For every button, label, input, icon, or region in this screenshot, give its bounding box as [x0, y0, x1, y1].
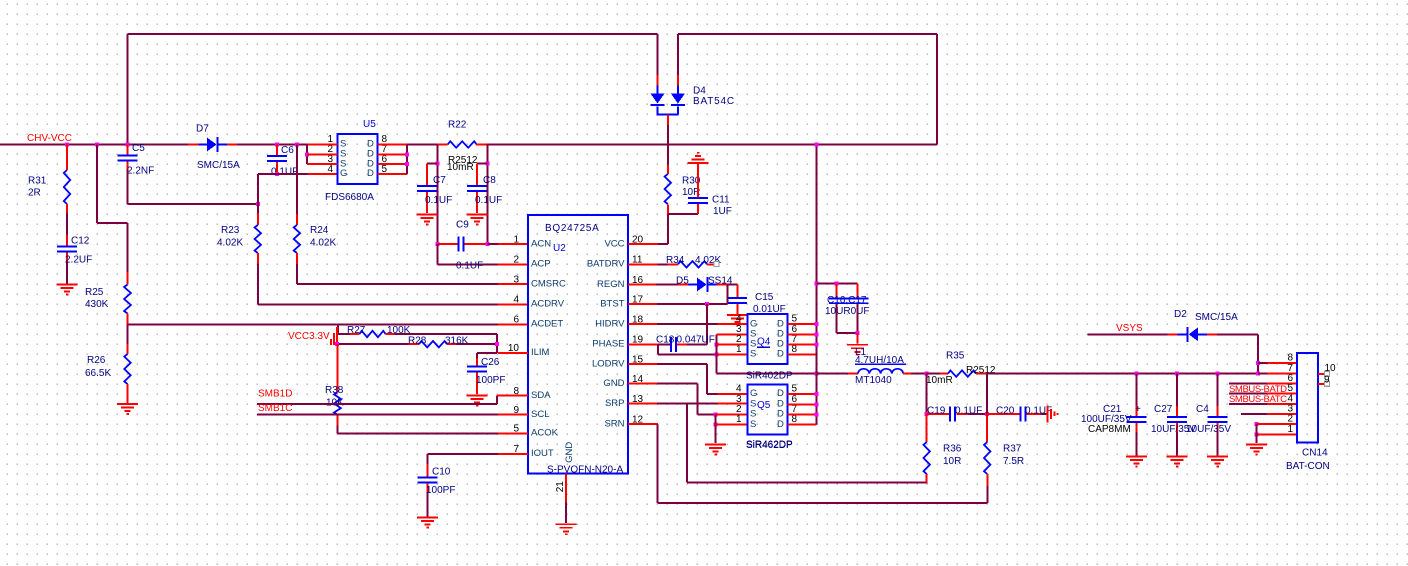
svg-text:SCL: SCL: [531, 409, 549, 420]
svg-text:BAT-CON: BAT-CON: [1286, 461, 1330, 472]
svg-text:CMSRC: CMSRC: [531, 278, 566, 289]
U2 left pin names: [531, 238, 566, 459]
capacitor C21: [1081, 372, 1146, 456]
svg-text:1: 1: [513, 234, 519, 245]
svg-text:R31: R31: [28, 175, 47, 186]
svg-text:BQ24725A: BQ24725A: [545, 223, 600, 234]
wire ACN net: [488, 243, 529, 245]
capacitor C10: [418, 464, 456, 517]
svg-text:R26: R26: [87, 355, 106, 366]
svg-text:HIDRV: HIDRV: [595, 319, 625, 330]
svg-text:D7: D7: [196, 123, 209, 134]
svg-text:1: 1: [736, 344, 742, 355]
svg-text:7.5R: 7.5R: [1003, 456, 1024, 467]
wire top-left loop: [128, 34, 658, 145]
wire CN14 pin3: [1241, 413, 1297, 415]
wire CN14 pin6: [1229, 382, 1297, 384]
svg-text:REGN: REGN: [597, 279, 625, 290]
wire PHASE to Q4 sources: [658, 334, 748, 356]
wire rail to R25: [95, 143, 128, 265]
svg-text:SRN: SRN: [604, 419, 624, 430]
svg-text:0.1UF: 0.1UF: [475, 195, 502, 206]
svg-text:C18: C18: [656, 334, 675, 345]
ground under Q5: [705, 444, 726, 456]
svg-text:ILIM: ILIM: [531, 347, 550, 358]
svg-text:0.1UF: 0.1UF: [425, 195, 452, 206]
ground under C16 C17: [847, 344, 868, 356]
capacitor C16 C17: [825, 295, 869, 317]
ground under C10: [417, 517, 438, 529]
svg-text:ACDRV: ACDRV: [531, 299, 565, 310]
svg-text:4: 4: [736, 384, 742, 395]
svg-text:ACN: ACN: [531, 238, 551, 249]
wire SMB1C / SCL net: [257, 403, 528, 415]
ground under C8: [467, 214, 488, 226]
svg-text:SiR402DP: SiR402DP: [746, 370, 793, 381]
no-connect square R34: [714, 262, 719, 267]
ground under C12: [57, 284, 78, 296]
wire C5 bottom to R23 top: [128, 169, 260, 206]
capacitor C6: [267, 143, 298, 178]
svg-text:CAP8MM: CAP8MM: [1088, 424, 1131, 435]
resistor R26: [85, 324, 131, 403]
svg-text:10mR: 10mR: [447, 162, 474, 173]
svg-text:D2: D2: [1174, 309, 1187, 320]
svg-text:BTST: BTST: [600, 299, 624, 310]
svg-text:U5: U5: [363, 119, 376, 130]
svg-text:VCC: VCC: [604, 238, 624, 249]
svg-text:2: 2: [513, 255, 519, 266]
svg-text:6: 6: [513, 315, 519, 326]
Q4 pin numbers: [736, 314, 798, 355]
resistor R28: [408, 335, 497, 347]
U2 pin 21 GND pad: [555, 474, 566, 524]
svg-text:CHV-VCC: CHV-VCC: [27, 133, 72, 144]
ground under pin 21: [556, 523, 577, 535]
svg-text:C6: C6: [281, 145, 294, 156]
ground under C26: [466, 395, 487, 407]
svg-text:100PF: 100PF: [476, 375, 505, 386]
resistor R35: [925, 350, 1258, 386]
svg-text:R34: R34: [666, 255, 685, 266]
capacitor C11: [668, 162, 732, 217]
wire U5 source tie: [305, 145, 337, 165]
svg-text:4: 4: [513, 295, 519, 306]
svg-text:1: 1: [1287, 424, 1293, 435]
svg-text:R28: R28: [408, 335, 427, 346]
capacitor C15: [728, 285, 786, 315]
resistor R27: [347, 325, 497, 337]
svg-text:10mR: 10mR: [926, 375, 953, 386]
capacitor C8: [467, 175, 502, 213]
resistor R25: [85, 264, 131, 324]
svg-text:+: +: [1135, 404, 1141, 415]
ground right of C20: [1047, 405, 1059, 422]
transistor Q5 SiR462DP: [746, 385, 793, 451]
svg-text:66.5K: 66.5K: [85, 368, 111, 379]
svg-text:8: 8: [792, 414, 798, 425]
wire R27 line from ACDET: [338, 324, 350, 334]
capacitor C20: [987, 374, 1052, 422]
wire VCC pin20: [628, 214, 668, 244]
svg-text:CN14: CN14: [1302, 447, 1328, 458]
svg-text:5: 5: [792, 384, 798, 395]
svg-text:PHASE: PHASE: [592, 339, 624, 350]
svg-text:C19: C19: [927, 405, 946, 416]
capacitor C9: [435, 219, 489, 251]
power port VCC3.3V: [288, 327, 338, 345]
svg-text:R27: R27: [347, 325, 366, 336]
wire HIDRV net: [628, 304, 748, 324]
svg-text:FDS6680A: FDS6680A: [325, 192, 374, 203]
CN14 pin numbers: [1287, 353, 1293, 435]
capacitor C18: [628, 324, 715, 352]
ground above C11: [687, 152, 708, 164]
svg-text:1UF: 1UF: [713, 206, 732, 217]
wire CN14 pins 1 2 to ground: [1254, 422, 1297, 443]
capacitor C27: [1151, 372, 1196, 456]
svg-text:GND: GND: [603, 378, 624, 389]
svg-text:BATDRV: BATDRV: [587, 259, 625, 270]
svg-text:SMB1D: SMB1D: [258, 388, 292, 399]
svg-text:R38: R38: [325, 385, 344, 396]
U2 right pin numbers: [632, 234, 644, 425]
transistor Q4 SiR462DP: [746, 314, 793, 450]
svg-text:C27: C27: [1154, 404, 1173, 415]
ground under R26: [117, 403, 138, 415]
svg-text:R25: R25: [85, 287, 104, 298]
resistor R31: [28, 143, 70, 236]
wire ACDRV net: [258, 303, 528, 305]
svg-text:U2: U2: [553, 243, 566, 254]
CN14 pin9: [1318, 375, 1330, 387]
ground under C7: [417, 214, 438, 226]
wire C6 bottom / U5 gate line: [258, 172, 338, 204]
svg-text:VCC3.3V: VCC3.3V: [288, 331, 330, 342]
svg-text:316K: 316K: [445, 335, 469, 346]
svg-text:2R: 2R: [28, 187, 41, 198]
wire CMSRC net: [297, 283, 528, 285]
wire C8 column: [477, 145, 489, 245]
wire C16 C17 bottom: [837, 304, 860, 343]
svg-text:R36: R36: [943, 443, 962, 454]
connector CN14 BAT-CON: [1286, 353, 1330, 472]
svg-text:R22: R22: [448, 119, 467, 130]
ground under C27: [1166, 456, 1187, 468]
diode D4 BAT54C: [651, 34, 735, 125]
wire battery line to CN14: [1256, 334, 1297, 375]
wire IOUT net: [428, 454, 529, 464]
wire ACOK net: [337, 432, 528, 434]
wire C16 C17 top: [815, 281, 858, 298]
wire GND pin14 net: [628, 384, 716, 415]
svg-text:D4: D4: [693, 85, 706, 96]
capacitor C26: [467, 353, 506, 394]
resistor R37: [984, 414, 1024, 474]
capacitor C12: [57, 235, 92, 284]
U5 pin numbers: [327, 134, 387, 175]
svg-text:SDA: SDA: [531, 390, 551, 401]
svg-text:8: 8: [1287, 353, 1293, 364]
svg-text:C11: C11: [712, 194, 730, 205]
svg-text:S-PVQFN-N20-A: S-PVQFN-N20-A: [547, 464, 623, 475]
svg-text:C9: C9: [456, 219, 469, 230]
wire SMBUS-BATC net: [1229, 394, 1297, 405]
svg-text:10UR0UF: 10UR0UF: [825, 306, 869, 317]
diode D2 SMC/15A: [1088, 309, 1258, 342]
svg-text:8: 8: [792, 344, 798, 355]
svg-text:21: 21: [555, 481, 566, 493]
inductor L1: [817, 347, 927, 386]
svg-text:4: 4: [327, 164, 333, 175]
wire SRP net: [628, 404, 927, 483]
svg-text:ACP: ACP: [531, 259, 551, 270]
wire LODRV net: [628, 364, 748, 394]
svg-text:9: 9: [1324, 375, 1330, 386]
ground under CN14: [1246, 444, 1267, 456]
resistor R30: [665, 125, 701, 214]
svg-text:C10: C10: [432, 466, 451, 477]
svg-text:10K: 10K: [326, 397, 344, 408]
svg-text:C15: C15: [755, 292, 774, 303]
wire SRN net: [628, 424, 988, 503]
resistor R24: [294, 143, 337, 285]
wire top-right loop: [678, 34, 937, 145]
svg-text:2.2UF: 2.2UF: [65, 254, 92, 265]
svg-text:0.047UF: 0.047UF: [677, 334, 715, 345]
Q5 pin numbers: [736, 384, 798, 426]
wire main input rail CHV-VCC: [0, 144, 937, 146]
svg-text:GND: GND: [564, 442, 575, 463]
svg-text:BAT54C: BAT54C: [693, 96, 735, 107]
svg-text:SMB1C: SMB1C: [258, 403, 292, 414]
svg-text:0.1UF: 0.1UF: [955, 405, 982, 416]
wire ILIM net: [477, 334, 528, 353]
node CHV-VCC label: [27, 133, 72, 144]
Q4 label SiR402DP: [746, 370, 793, 381]
svg-text:10: 10: [1325, 363, 1337, 374]
wire BTST net: [628, 285, 738, 307]
svg-text:430K: 430K: [85, 299, 109, 310]
svg-text:C4: C4: [1196, 404, 1209, 415]
CN14 pin10: [1318, 363, 1336, 376]
resistor R36: [924, 414, 962, 483]
svg-text:100K: 100K: [387, 325, 411, 336]
svg-text:R37: R37: [1003, 443, 1022, 454]
resistor R23: [217, 204, 261, 304]
wire SMBUS-BATD net: [1229, 384, 1297, 395]
svg-text:VSYS: VSYS: [1116, 323, 1143, 334]
resistor R22: [438, 119, 487, 173]
svg-text:S: S: [750, 349, 756, 360]
wire VCC3.3V net: [335, 342, 408, 346]
diode D7: [188, 123, 240, 171]
svg-text:SMC/15A: SMC/15A: [197, 160, 240, 171]
svg-text:G: G: [750, 388, 757, 399]
svg-text:C26: C26: [481, 357, 500, 368]
svg-text:10UF/35V: 10UF/35V: [1186, 424, 1231, 435]
svg-text:R2512: R2512: [966, 365, 996, 376]
svg-text:ACOK: ACOK: [531, 428, 559, 439]
diode D5 SS14: [628, 275, 733, 292]
svg-text:S: S: [750, 419, 756, 430]
U2 left pin numbers: [508, 234, 520, 455]
svg-text:4.02K: 4.02K: [310, 237, 336, 248]
svg-text:R35: R35: [946, 350, 965, 361]
svg-text:3: 3: [513, 274, 519, 285]
svg-text:R23: R23: [221, 225, 240, 236]
svg-text:D5: D5: [676, 275, 689, 286]
svg-text:Q5: Q5: [757, 400, 771, 411]
svg-text:SRP: SRP: [605, 398, 625, 409]
capacitor C7: [417, 175, 452, 213]
svg-text:0.1UF: 0.1UF: [456, 260, 483, 271]
wire Q5 source bus to ground: [714, 413, 748, 443]
svg-text:D: D: [367, 168, 374, 179]
svg-text:SiR462DP: SiR462DP: [746, 440, 793, 451]
svg-text:SMC/15A: SMC/15A: [1195, 312, 1238, 323]
wire Q4 drains to input bus: [788, 143, 819, 374]
op-amp U2 BQ24725A: [528, 215, 628, 475]
wire C7 column: [427, 145, 439, 265]
svg-text:C5: C5: [132, 143, 145, 154]
ground under C4: [1207, 456, 1228, 468]
svg-text:D: D: [777, 388, 784, 399]
wire U5 drain pins right: [378, 145, 409, 175]
wire ACDET net: [128, 323, 529, 325]
svg-text:Q4: Q4: [757, 336, 771, 347]
svg-text:IOUT: IOUT: [531, 448, 554, 459]
transistor U5 FDS6680A: [325, 119, 378, 203]
U5 pin1 lead: [308, 144, 338, 146]
svg-text:D: D: [777, 419, 784, 430]
capacitor C5: [118, 143, 155, 177]
svg-text:R24: R24: [310, 225, 329, 236]
svg-text:2.2NF: 2.2NF: [127, 165, 154, 176]
wire PHASE node to inductor: [717, 355, 819, 376]
wire SMB1D / SDA net: [257, 388, 528, 404]
svg-text:C8: C8: [483, 175, 496, 186]
svg-text:4.02K: 4.02K: [217, 237, 243, 248]
svg-text:1: 1: [736, 414, 742, 425]
node VSYS label: [1116, 323, 1143, 334]
capacitor C4: [1186, 372, 1231, 456]
svg-text:C7: C7: [433, 175, 446, 186]
resistor R38: [325, 344, 344, 433]
capacitor C19: [925, 374, 990, 422]
svg-text:D: D: [777, 349, 784, 360]
ground under C21: [1126, 456, 1147, 468]
svg-text:10R: 10R: [943, 456, 961, 467]
svg-text:C12: C12: [71, 235, 90, 246]
ground under C15: [727, 314, 748, 326]
svg-text:LODRV: LODRV: [592, 358, 625, 369]
U2 right pin names: [587, 238, 625, 429]
resistor R34: [628, 255, 721, 268]
svg-text:MT1040: MT1040: [855, 375, 892, 386]
svg-text:ACDET: ACDET: [531, 319, 563, 330]
svg-text:100PF: 100PF: [426, 485, 455, 496]
svg-text:G: G: [340, 168, 347, 179]
wire Q5 drains to phase bus: [788, 374, 819, 425]
wire ACP net: [437, 244, 528, 271]
svg-text:C20: C20: [996, 405, 1015, 416]
